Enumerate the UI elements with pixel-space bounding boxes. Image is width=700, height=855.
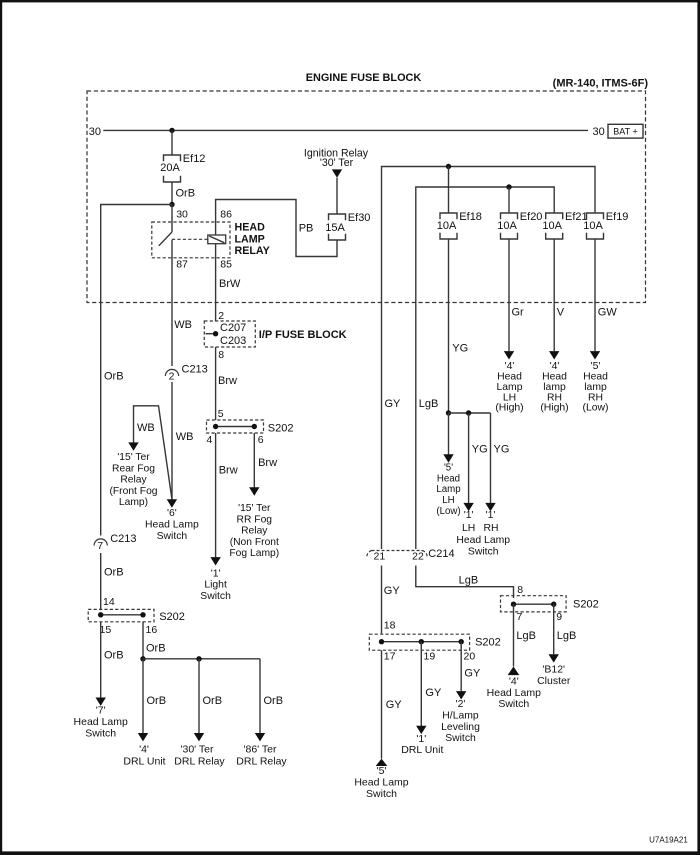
svg-text:LH: LH <box>503 392 516 403</box>
svg-text:Head: Head <box>497 372 522 383</box>
splice S202 (LgB) dashed box <box>501 596 599 612</box>
svg-text:GY: GY <box>464 668 481 680</box>
svg-text:'1': '1' <box>486 510 496 521</box>
label 2 H/Lamp Leveling Switch <box>441 699 480 744</box>
wire YG: to 5 Head Lamp LH (Low) <box>448 413 450 455</box>
svg-text:10A: 10A <box>437 220 457 232</box>
feed wire to Ef18/Ef19 row <box>382 167 596 303</box>
svg-text:GY: GY <box>384 585 401 597</box>
svg-text:WB: WB <box>174 319 192 331</box>
relay actuator dashed link <box>172 238 208 240</box>
svg-text:LgB: LgB <box>557 630 577 642</box>
title ENGINE FUSE BLOCK <box>306 72 422 84</box>
svg-text:Switch: Switch <box>445 733 476 744</box>
svg-text:19: 19 <box>424 651 436 663</box>
svg-text:Ef30: Ef30 <box>348 212 371 224</box>
svg-text:'4': '4' <box>139 744 149 756</box>
label 1 DRL Unit <box>401 733 443 756</box>
svg-text:S202: S202 <box>475 636 501 648</box>
svg-text:Switch: Switch <box>366 788 397 800</box>
relay HEAD LAMP RELAY (dashed box) <box>152 222 230 258</box>
svg-text:LAMP: LAMP <box>235 234 265 246</box>
svg-text:DRL Relay: DRL Relay <box>236 755 287 767</box>
svg-text:'7': '7' <box>96 704 106 716</box>
label 5 Head Lamp Switch <box>354 765 408 800</box>
svg-text:LH: LH <box>462 523 475 534</box>
svg-text:'B12': 'B12' <box>542 664 565 676</box>
arrow (up) to 4 Head Lamp Switch <box>508 667 520 676</box>
wire LgB: fuse block to C214 pin 22 <box>416 303 439 550</box>
svg-text:'15' Ter: '15' Ter <box>238 503 271 514</box>
label 30 (right) <box>593 126 605 138</box>
arrow to 1 Light Switch <box>210 557 220 565</box>
svg-text:10A: 10A <box>583 220 603 232</box>
wire GW: Ef19 to headlamp RH low <box>595 239 617 351</box>
node on feed row 2 <box>506 184 511 189</box>
svg-text:LH: LH <box>442 495 454 506</box>
svg-text:4: 4 <box>207 434 213 446</box>
connector C213 pin 7 <box>94 533 136 552</box>
svg-text:C213: C213 <box>182 364 208 376</box>
arrow to 86 Ter DRL Relay <box>255 733 265 741</box>
wire OrB: to 30 Ter DRL Relay <box>199 659 222 733</box>
splice S202 nodes and link (LgB) <box>511 602 557 607</box>
wire: row2 node to fuse Ef20 <box>508 187 510 213</box>
svg-text:'6': '6' <box>167 508 177 519</box>
subtitle (MR-140, ITMS-6F) <box>553 78 649 90</box>
label B12 Cluster <box>537 664 571 688</box>
svg-text:GY: GY <box>385 398 402 410</box>
arrow to 5 Head lamp RH (Low) <box>590 351 600 359</box>
arrow to 30 Ter DRL Relay <box>194 733 204 741</box>
wire OrB: Ef12 to node <box>172 182 195 205</box>
engine fuse block boundary (dashed) <box>87 91 646 303</box>
wire GY: S202 to 2 H/Lamp leveling switch <box>461 642 481 692</box>
svg-text:DRL Unit: DRL Unit <box>123 755 165 767</box>
node: OrB junction <box>169 202 174 207</box>
wire YG: to 1 RH head lamp switch <box>491 413 510 503</box>
arrow to 4 DRL Unit <box>138 733 148 741</box>
arrow to 4 Head lamp RH (High) <box>549 351 559 359</box>
label 4 Head Lamp Switch <box>487 676 541 711</box>
svg-text:Brw: Brw <box>218 375 237 387</box>
svg-text:7: 7 <box>97 540 103 552</box>
arrow to 6 Head Lamp Switch <box>167 499 177 507</box>
svg-text:30: 30 <box>593 126 605 138</box>
svg-text:86: 86 <box>220 209 232 221</box>
power symbol BAT + <box>608 124 643 138</box>
svg-text:(High): (High) <box>495 403 523 414</box>
label pin 17 <box>384 651 396 663</box>
svg-text:Head: Head <box>583 372 608 383</box>
wire OrB: C213 to S202 <box>101 553 124 609</box>
svg-text:DRL Relay: DRL Relay <box>174 755 225 767</box>
splice S202 (Brw) dashed box <box>207 420 294 435</box>
node OrB junction <box>140 656 145 661</box>
svg-text:Head Lamp: Head Lamp <box>487 687 541 699</box>
wire V: Ef21 to headlamp RH high <box>554 239 565 351</box>
svg-text:Fog Lamp): Fog Lamp) <box>229 548 279 559</box>
arrow to 15 Ter RR Fog Relay <box>249 487 259 495</box>
svg-text:Ef12: Ef12 <box>183 153 206 165</box>
label 15 Ter RR Fog Relay (Non Front Fog Lamp) <box>229 503 279 559</box>
splice S202 nodes and link <box>213 424 257 429</box>
svg-text:OrB: OrB <box>147 695 167 707</box>
arrow to 15 Ter Rear Fog Relay <box>128 442 138 450</box>
wire PB: Ef30 to relay pin 86 <box>216 200 337 257</box>
connector C213 pin 2 <box>165 364 207 383</box>
svg-text:GY: GY <box>425 687 442 699</box>
label 7 Head Lamp Switch <box>74 704 128 739</box>
wire GY: fuse block to C214 pin 21 <box>382 303 402 550</box>
fuse Ef19 10A <box>583 211 628 239</box>
arrow to 1 RH <box>485 503 495 511</box>
net 30 bus wire <box>103 129 588 131</box>
label HEAD LAMP RELAY <box>235 221 270 256</box>
svg-text:Ef20: Ef20 <box>520 211 543 223</box>
svg-text:Switch: Switch <box>498 698 529 710</box>
svg-text:Rear Fog: Rear Fog <box>112 463 155 474</box>
svg-text:ENGINE FUSE BLOCK: ENGINE FUSE BLOCK <box>306 72 422 84</box>
wire OrB: S202 pin16 down <box>143 622 166 659</box>
svg-text:C214: C214 <box>428 548 454 560</box>
fuse Ef12 20A <box>160 153 205 182</box>
svg-text:C203: C203 <box>220 335 246 347</box>
svg-text:(Non Front: (Non Front <box>230 537 279 548</box>
label pin 15 <box>100 624 112 636</box>
svg-text:Switch: Switch <box>468 546 499 557</box>
fuse Ef20 10A <box>497 211 542 239</box>
svg-text:'1': '1' <box>416 733 426 745</box>
svg-text:8: 8 <box>218 349 224 361</box>
label pin 6 <box>258 434 264 446</box>
svg-text:Switch: Switch <box>200 591 231 602</box>
svg-text:Head: Head <box>437 473 460 484</box>
wire BrW: relay pin 85 down <box>216 244 241 321</box>
svg-text:(Front Fog: (Front Fog <box>109 486 157 497</box>
svg-text:10A: 10A <box>542 220 562 232</box>
svg-text:17: 17 <box>384 651 396 663</box>
arrow to 5 Head Lamp LH (Low) <box>443 454 453 462</box>
svg-text:8: 8 <box>517 584 523 596</box>
arrow (up) to 5 Head Lamp Switch <box>376 759 388 766</box>
wire LgB: C214 to S202 <box>416 566 523 599</box>
svg-text:RR Fog: RR Fog <box>237 514 273 525</box>
splice S202 (GY) dashed box <box>369 634 501 650</box>
label 4 DRL Unit <box>123 744 165 768</box>
pin 85 label <box>220 258 232 270</box>
svg-text:U7A19A21: U7A19A21 <box>649 836 688 845</box>
wire GY: S202 to 5 head lamp switch <box>382 650 403 758</box>
connector C214 (dashed) <box>367 548 455 563</box>
svg-text:S202: S202 <box>268 423 294 435</box>
svg-text:C207: C207 <box>220 322 246 334</box>
label pin 4 <box>207 434 213 446</box>
wire OrB: to 86 Ter DRL Relay <box>260 659 283 733</box>
svg-text:WB: WB <box>137 422 155 434</box>
svg-text:OrB: OrB <box>203 695 223 707</box>
wire Gr: Ef20 to headlamp LH high <box>509 239 524 351</box>
svg-text:HEAD: HEAD <box>235 221 266 233</box>
wire: row1 node to fuse Ef18 <box>448 167 450 214</box>
feed wire to Ef20/Ef21 row <box>416 187 554 303</box>
svg-text:GY: GY <box>386 699 403 711</box>
svg-text:BAT +: BAT + <box>613 126 637 136</box>
svg-text:OrB: OrB <box>264 695 284 707</box>
svg-text:(Low): (Low) <box>583 403 609 414</box>
svg-text:85: 85 <box>220 258 232 270</box>
node on feed row 1 <box>446 164 451 169</box>
relay coil U1 <box>208 235 226 244</box>
wire Brw: C203 to S202 <box>216 347 237 420</box>
fuse Ef18 10A <box>437 211 482 239</box>
arrow to 4 Head Lamp LH (High) <box>504 351 514 359</box>
svg-text:22: 22 <box>412 551 424 563</box>
wire OrB: left column <box>101 303 124 536</box>
arrow to 7 Head Lamp Switch <box>96 698 106 706</box>
wire Brw: S202 pin6 to RR fog relay <box>254 433 277 488</box>
svg-text:15A: 15A <box>325 222 345 234</box>
svg-text:OrB: OrB <box>176 187 196 199</box>
svg-text:'1': '1' <box>211 569 221 580</box>
svg-text:S202: S202 <box>573 599 599 611</box>
svg-text:S202: S202 <box>159 611 185 623</box>
svg-text:'2': '2' <box>456 699 466 710</box>
svg-text:LgB: LgB <box>419 398 439 410</box>
svg-text:'30' Ter: '30' Ter <box>180 744 214 756</box>
svg-text:DRL Unit: DRL Unit <box>401 744 443 756</box>
wire WB: relay pin 87 down <box>172 240 192 366</box>
svg-text:RH: RH <box>588 392 603 403</box>
svg-text:Lamp: Lamp <box>497 382 523 393</box>
wire YG: Ef18 down to junction <box>449 239 469 413</box>
node YG junction 1 <box>446 410 451 415</box>
svg-text:9: 9 <box>556 611 562 623</box>
document number U7A19A21 <box>649 836 688 845</box>
svg-text:BrW: BrW <box>219 278 241 290</box>
wire OrB: S202 to 7 head lamp switch <box>101 622 124 698</box>
pin 87 label <box>176 258 188 270</box>
wire GY: C214 down <box>382 566 401 634</box>
svg-text:'5': '5' <box>591 361 601 372</box>
svg-text:'4': '4' <box>550 361 560 372</box>
splice S202 nodes and link (OrB) <box>98 612 146 617</box>
svg-text:Gr: Gr <box>512 307 525 319</box>
svg-text:V: V <box>557 307 565 319</box>
svg-text:RH: RH <box>483 523 498 534</box>
svg-text:RELAY: RELAY <box>235 245 270 257</box>
svg-text:OrB: OrB <box>146 643 166 655</box>
svg-text:5: 5 <box>218 408 224 420</box>
label 30 Ter DRL Relay <box>174 744 225 768</box>
svg-text:PB: PB <box>299 223 314 235</box>
svg-text:(Low): (Low) <box>436 506 460 517</box>
node OrB junction 2 <box>196 656 201 661</box>
svg-text:Ef18: Ef18 <box>459 211 482 223</box>
pin 86 label <box>220 209 232 221</box>
fuse Ef30 15A <box>325 212 370 240</box>
svg-text:Head Lamp: Head Lamp <box>74 716 128 728</box>
svg-text:'5': '5' <box>444 462 453 473</box>
svg-text:14: 14 <box>103 596 115 608</box>
label 4 Head Lamp LH (High) <box>495 361 523 414</box>
svg-text:Lamp): Lamp) <box>119 497 148 508</box>
label 4 Head lamp RH (High) <box>540 361 568 414</box>
wire: node to relay pin 30 <box>172 205 188 233</box>
wire OrB: branch to left column <box>101 205 172 303</box>
svg-text:Head Lamp: Head Lamp <box>456 535 510 546</box>
svg-text:'86' Ter: '86' Ter <box>243 744 277 756</box>
arrow to 1 DRL Unit <box>416 726 426 734</box>
svg-text:RH: RH <box>547 392 562 403</box>
svg-text:YG: YG <box>472 443 488 455</box>
label pin 9 <box>556 611 562 623</box>
svg-text:(MR-140, ITMS-6F): (MR-140, ITMS-6F) <box>553 78 649 90</box>
svg-text:'15' Ter: '15' Ter <box>117 452 150 463</box>
wire GY: S202 to 1 DRL unit <box>421 642 442 726</box>
splice S202 (OrB) dashed box <box>88 609 185 622</box>
svg-text:2: 2 <box>218 310 224 322</box>
svg-text:I/P FUSE BLOCK: I/P FUSE BLOCK <box>259 329 347 341</box>
wire YG: to 1 LH head lamp switch <box>469 413 488 503</box>
svg-text:(High): (High) <box>540 403 568 414</box>
svg-text:87: 87 <box>176 258 188 270</box>
svg-text:2: 2 <box>169 371 175 383</box>
wire OrB: to 4 DRL Unit <box>143 659 166 733</box>
svg-text:Light: Light <box>204 580 227 591</box>
svg-text:Switch: Switch <box>85 727 116 739</box>
svg-text:Head Lamp: Head Lamp <box>145 520 199 531</box>
svg-text:30: 30 <box>176 209 188 221</box>
svg-text:'1': '1' <box>464 510 474 521</box>
label pin 16 <box>146 624 158 636</box>
arrow from ignition relay <box>332 169 342 177</box>
label 86 Ter DRL Relay <box>236 744 287 768</box>
label pin 5 <box>218 408 224 420</box>
svg-text:LgB: LgB <box>459 574 479 586</box>
splice S202 nodes and link (GY) <box>379 639 464 644</box>
label 1 LH / 1 RH Head Lamp Switch <box>456 510 510 558</box>
arrow to 1 LH <box>463 503 473 511</box>
OrB branch horizontal <box>143 658 260 660</box>
svg-text:10A: 10A <box>497 220 517 232</box>
svg-text:Head Lamp: Head Lamp <box>354 777 408 789</box>
label I/P FUSE BLOCK <box>259 329 347 341</box>
wire WB: branch to rear fog relay <box>134 406 172 499</box>
label 5 Head lamp RH (Low) <box>583 361 609 414</box>
svg-text:20A: 20A <box>160 162 180 174</box>
svg-text:OrB: OrB <box>104 371 124 383</box>
svg-text:6: 6 <box>258 434 264 446</box>
svg-text:Relay: Relay <box>241 526 268 537</box>
svg-text:LgB: LgB <box>516 630 536 642</box>
wire Brw: S202 to light switch <box>216 433 238 557</box>
label pin 7 <box>517 611 523 623</box>
node: junction on 30 bus <box>169 128 174 133</box>
label 6 Head Lamp Switch <box>145 508 199 542</box>
svg-text:Leveling: Leveling <box>441 722 480 733</box>
wire: ignition relay to fuse Ef30 <box>336 178 338 214</box>
svg-text:Ef19: Ef19 <box>606 211 629 223</box>
svg-text:lamp: lamp <box>543 382 566 393</box>
arrow to 2 H/Lamp Leveling Switch <box>456 691 466 699</box>
node YG junction 2 <box>466 410 471 415</box>
svg-text:OrB: OrB <box>104 567 124 579</box>
svg-text:C213: C213 <box>110 533 136 545</box>
wire LgB: S202 to B12 cluster <box>554 604 577 654</box>
label 5 Head Lamp LH (Low) <box>436 462 460 517</box>
svg-text:YG: YG <box>452 342 468 354</box>
YG branch horizontal <box>449 412 491 414</box>
svg-text:20: 20 <box>464 651 476 663</box>
wire WB: C213 to head lamp switch <box>172 382 194 500</box>
svg-text:H/Lamp: H/Lamp <box>442 711 479 722</box>
svg-text:YG: YG <box>494 443 510 455</box>
svg-text:Brw: Brw <box>258 457 277 469</box>
svg-text:WB: WB <box>176 431 194 443</box>
svg-text:Brw: Brw <box>219 465 238 477</box>
label pin 2 <box>218 310 224 322</box>
relay switch blade <box>159 232 172 246</box>
svg-text:21: 21 <box>374 551 386 563</box>
wire: 30 bus to fuse Ef12 <box>171 130 173 155</box>
label pin 20 <box>464 651 476 663</box>
svg-text:Relay: Relay <box>120 475 147 486</box>
svg-text:18: 18 <box>384 620 396 632</box>
svg-text:16: 16 <box>146 624 158 636</box>
svg-text:Lamp: Lamp <box>436 484 460 495</box>
svg-text:OrB: OrB <box>104 650 124 662</box>
label 15 Ter Rear Fog Relay (Front Fog Lamp) <box>109 452 157 508</box>
svg-text:Switch: Switch <box>157 531 188 542</box>
svg-text:'4': '4' <box>509 676 519 688</box>
svg-text:lamp: lamp <box>584 382 607 393</box>
svg-text:'30' Ter: '30' Ter <box>320 157 354 169</box>
connector C207/C203 I/P FUSE BLOCK <box>204 321 255 347</box>
svg-text:GW: GW <box>598 307 618 319</box>
svg-text:7: 7 <box>517 611 523 623</box>
fuse Ef21 10A <box>542 211 587 239</box>
svg-text:30: 30 <box>89 126 101 138</box>
svg-text:'4': '4' <box>505 361 515 372</box>
svg-text:Cluster: Cluster <box>537 675 571 687</box>
svg-text:'5': '5' <box>377 765 387 777</box>
arrow to B12 Cluster <box>549 654 559 662</box>
label 30 (left) <box>89 126 101 138</box>
label pin 19 <box>424 651 436 663</box>
label Ignition Relay 30 Ter <box>304 148 369 169</box>
wire LgB: S202 to 4 head lamp switch <box>514 604 536 666</box>
svg-text:Head: Head <box>542 372 567 383</box>
label 1 Light Switch <box>200 569 231 602</box>
